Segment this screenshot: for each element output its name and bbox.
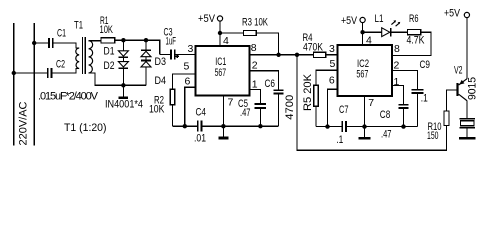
ground (IC1 pin7) (219, 126, 229, 138)
svg-text:2: 2 (252, 59, 258, 71)
wire IC1 pin7 drop (222, 96, 224, 127)
svg-text:4: 4 (366, 34, 372, 46)
resistor R2 (170, 89, 174, 126)
svg-text:8: 8 (251, 42, 257, 54)
svg-text:L1: L1 (375, 13, 384, 25)
svg-text:1: 1 (394, 76, 400, 88)
wire IC1 pin5 to R2 (172, 74, 195, 89)
wire +5V node to LED L1 (363, 31, 382, 33)
diode D1 (118, 40, 128, 57)
wire C2 to T1 primary bottom (52, 69, 79, 74)
svg-text:4: 4 (223, 35, 229, 47)
svg-text:R3 10K: R3 10K (242, 17, 268, 29)
svg-text:+5V: +5V (444, 8, 461, 20)
op-amp U1 : IC1 567 tone decoder (195, 46, 249, 96)
svg-text:7: 7 (368, 97, 374, 109)
node AC input rail right (33, 23, 35, 146)
ground (piezo) (459, 137, 476, 140)
wire T1 secondary top to R1 (89, 40, 101, 42)
svg-text:T1 (1:20): T1 (1:20) (64, 122, 107, 134)
resistor R3 (220, 30, 279, 54)
svg-text:IN4001*4: IN4001*4 (105, 99, 143, 111)
svg-text:4.7K: 4.7K (407, 35, 426, 47)
capacitor C8 (392, 85, 409, 126)
transistor Q1 : V2 9015 PNP (456, 79, 467, 119)
svg-text:1uF: 1uF (166, 36, 177, 48)
svg-text:.47: .47 (381, 129, 392, 141)
svg-text:C8: C8 (380, 109, 391, 121)
svg-text:T1: T1 (74, 20, 83, 32)
svg-text:7: 7 (228, 96, 234, 108)
wire feedback rail (pin8 node to R10) (297, 55, 446, 150)
buzzer piezo element (460, 119, 475, 137)
capacitor C6 (250, 71, 284, 126)
capacitor C1 (49, 38, 53, 48)
svg-text:.015uF*2/400V: .015uF*2/400V (38, 91, 99, 103)
svg-text:R5 20K: R5 20K (302, 73, 314, 111)
svg-text:C7: C7 (339, 104, 349, 116)
capacitor C3 (160, 49, 196, 59)
svg-text:4700: 4700 (284, 95, 296, 120)
op-amp U2 : IC2 567 tone decoder (337, 45, 391, 96)
svg-text:C2: C2 (56, 58, 65, 70)
svg-text:D3: D3 (155, 56, 167, 68)
capacitor C2 (48, 68, 52, 78)
diode D3 (141, 40, 151, 57)
svg-text:9015: 9015 (467, 77, 479, 100)
wire ground rail (IC2) (316, 124, 418, 128)
resistor R4 (313, 52, 337, 57)
svg-text:10K: 10K (149, 103, 165, 115)
wire IC2 pin6 drop (328, 89, 338, 126)
svg-text:8: 8 (394, 43, 400, 55)
svg-text:.47: .47 (240, 107, 251, 119)
wire C1 to T1 primary top (53, 43, 79, 48)
svg-text:3: 3 (188, 43, 194, 55)
wire T1 secondary bottom rail (89, 73, 146, 88)
LED L1 (382, 20, 401, 36)
wire rail1 to C2 (12, 71, 48, 75)
wire IC1 pin8 to R4 (250, 53, 314, 57)
svg-text:1: 1 (252, 79, 258, 91)
svg-text:2: 2 (394, 60, 400, 72)
capacitor C5 (250, 90, 267, 127)
svg-text:C1: C1 (57, 27, 66, 39)
node +5V terminal (IC2) (360, 17, 365, 45)
svg-text:10K: 10K (100, 24, 114, 36)
ground (T1 secondary) (119, 85, 129, 98)
svg-text:R6: R6 (409, 13, 419, 25)
wire ground rail (IC1) (172, 124, 278, 128)
diode D2 (118, 58, 128, 85)
svg-text:D2: D2 (104, 60, 115, 72)
svg-text:220V/AC: 220V/AC (18, 101, 30, 145)
wire IC2 pin5 to R5 (316, 70, 338, 85)
ground (IC2 pin7) (359, 127, 371, 139)
svg-text:.1: .1 (421, 93, 428, 105)
svg-text:C4: C4 (196, 106, 207, 118)
svg-text:567: 567 (215, 67, 227, 79)
wire R1 to C3 corner (top rail) (115, 38, 160, 54)
transformer T1 (76, 37, 93, 74)
svg-text:C6: C6 (265, 78, 276, 90)
capacitor C7 (342, 121, 346, 132)
svg-text:+5V: +5V (341, 15, 358, 27)
node AC input rail left (13, 23, 15, 146)
wire IC2 pin7 drop (364, 96, 366, 127)
resistor R6 (391, 30, 431, 56)
svg-text:.1: .1 (336, 134, 343, 146)
node +5V terminal (IC1) (217, 16, 222, 46)
svg-text:150: 150 (427, 130, 439, 142)
svg-text:6: 6 (185, 75, 191, 87)
resistor R10 (444, 90, 457, 126)
resistor R5 (314, 85, 318, 126)
svg-text:5: 5 (330, 58, 336, 70)
svg-text:V2: V2 (454, 65, 463, 77)
wire IC1 pin6 drop (185, 87, 196, 126)
capacitor C4 (198, 121, 202, 132)
svg-text:470K: 470K (303, 41, 324, 53)
svg-text:+5V: +5V (198, 13, 216, 25)
svg-text:.01: .01 (194, 133, 206, 145)
capacitor C9 (392, 71, 424, 127)
svg-text:567: 567 (356, 69, 368, 81)
svg-text:6: 6 (329, 75, 335, 87)
svg-text:D4: D4 (155, 75, 167, 87)
resistor R1 (101, 38, 115, 43)
diode D4 (141, 57, 151, 86)
node +5V terminal (V2) (464, 12, 469, 78)
svg-text:D1: D1 (104, 46, 115, 58)
svg-text:5: 5 (184, 61, 190, 73)
svg-text:3: 3 (329, 43, 335, 55)
svg-text:C9: C9 (420, 59, 431, 71)
wire rail2 to C1 (32, 41, 49, 45)
